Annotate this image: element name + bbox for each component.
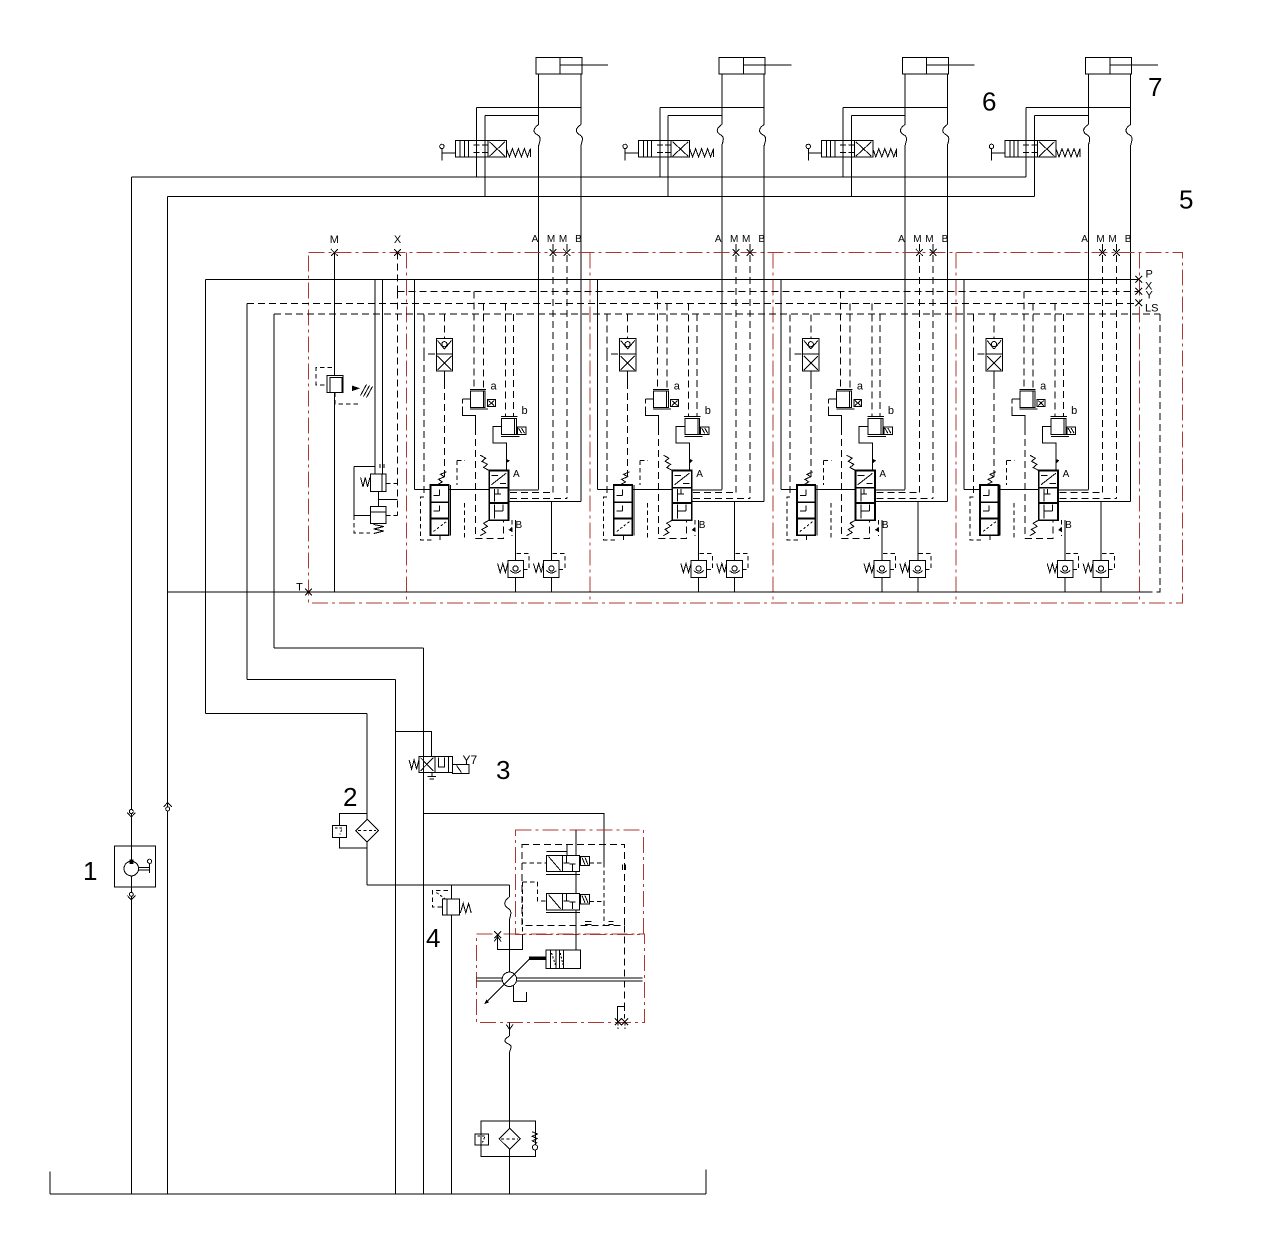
section 1 spool bottom cell lines [494,505,496,519]
section 4 spool spring bottom [1030,520,1039,535]
section 2 pilot valve b top ticks [684,415,701,417]
svg-text:B: B [699,520,706,531]
section 3 port relief B pilot dash [919,554,932,570]
valve block section border 4 [955,253,957,604]
hand pump 1 lever [139,866,150,868]
svg-text:5: 5 [1179,185,1193,215]
solenoid valve A underline [546,873,580,875]
wire valve2 to pipe A [668,115,722,117]
section 2 pilot valve a riser right [666,303,668,389]
section 1 gauge line Mb [566,244,568,499]
section 4 gauge line Mb [1115,244,1117,499]
section 4 pilot valve b top ticks [1051,415,1068,417]
solenoid valve 3 branch [396,732,432,757]
section 4 port relief A feed [1064,520,1066,560]
svg-text:A: A [532,234,539,245]
section 2 compensator drain tail [622,535,624,540]
section 4 pilot valve a riser left [1023,291,1025,389]
section 3 pilot valve b riser left [871,303,873,416]
section 3 compensator pilot dash line [789,354,791,497]
section 3 pilot a output dash down [841,428,843,538]
svg-text:M: M [559,234,567,245]
pipe A3 upper [904,74,906,125]
section 4 compensator spring [988,472,996,485]
filter feed drop [366,714,368,820]
section 1 port relief B spring [534,564,544,573]
section 1 pilot valve a solenoid [488,400,496,407]
hand valve HV2 lever [623,144,627,148]
section 1 port relief A drain [515,578,517,592]
section 1 check valve poppet ball [442,342,447,347]
pipe A2 break [717,125,723,146]
section 3 port relief B anticav [915,566,920,571]
section 1 port relief A pilot dash [516,554,529,570]
section 2 pilot valve b underline [684,435,702,437]
section 4 pilot valve b output elbow [1042,427,1056,471]
unloader valve spring W [361,478,370,487]
svg-text:1: 1 [83,856,97,886]
section 4 port relief B feed [1100,502,1102,561]
section 1 pilot valve b underline [501,435,519,437]
bus line T-pilot (y197) [168,196,1035,198]
suction staple [498,935,523,950]
solenoid valve A right cell [566,856,568,863]
elbow P to filter [206,713,368,715]
section 1 spool spring bottom [480,520,489,535]
hand valve HV2 riser left [659,107,661,177]
section 1 pilot valve a left port [462,398,470,400]
hand pump 1 port dot [130,860,133,863]
solenoid valve 3 U cell [439,758,445,768]
solenoid valve 3 tank [431,772,433,776]
unloader valve left link [354,466,375,468]
section 4 compensator mid cell [983,510,989,512]
relief valve DBV spring hatches [361,385,367,396]
section 2 port relief A spring [681,564,691,573]
section 3 pilot valve a riser left [840,291,842,389]
section 2 pilot valve b solenoid [701,427,709,434]
unloader valve lower box [370,507,386,524]
section 1 port relief B pilot dash [552,554,565,570]
section 3 gauge line Mb [932,244,934,499]
pump shaft lines [477,977,643,979]
cylinder CYL2 rod [743,64,765,66]
svg-text:b: b [522,405,528,417]
section 4 pilot valve b riser left [1054,303,1056,416]
pipe B1 lower [580,146,582,502]
hand valve HV2 right cell crossed [673,142,688,156]
hand valve HV4 riser right [1034,116,1036,197]
section 1 port relief A feed [515,520,517,560]
pipe A1 lower [538,146,540,490]
section 3 check valve lower cross [804,356,818,370]
cylinder CYL2 piston [742,57,744,74]
return filter bypass box [475,1134,488,1145]
section 2 check valve poppet seat [621,341,628,350]
hand valve HV2 riser right [667,116,669,197]
section 4 gauge link Ma [1060,491,1103,493]
section 1 compensator bottom cell dash arrow [434,522,447,532]
section 3 spool top cell arrows [858,473,873,485]
section 2 gauge link Mb [693,498,750,500]
section 2 compensator body [614,485,632,535]
section 3 pilot valve b output elbow [859,427,873,471]
svg-text:LS: LS [1145,303,1158,315]
section 4 port relief A body [1057,560,1073,577]
section 1 port relief A anticav [513,566,518,571]
section 2 port relief B feed [734,502,736,561]
svg-text:M: M [330,234,339,246]
pipe A4 lower [1087,146,1089,490]
section 1 port relief B anticav [549,566,554,571]
unloader drain dash [354,516,370,534]
section 3 compensator mid cell [800,510,806,512]
section 4 compensator pilot dash bracket [970,497,982,540]
cylinder CYL1 piston [559,57,561,74]
section 3 spool pilot bottom riser [877,520,879,536]
section 2 compensator dash feed [640,459,648,461]
svg-text:A: A [1081,234,1088,245]
section 2 spool spring bottom [663,520,672,535]
section 1 compensator pilot dash line [423,354,425,497]
relief 4 spring [460,903,471,912]
section 3 main spool body [856,471,875,521]
svg-text:X: X [394,234,402,246]
section 2 gauge line Mb [749,244,751,499]
coupling on tank line [164,802,172,807]
section 3 pilot valve a underline [836,408,854,410]
port Y marker [1135,300,1142,307]
enclosure right dash drop [623,925,625,1006]
section 1 compensator spring [438,472,446,485]
pipe A3 break [900,125,906,146]
hand valve HV3 body [822,141,873,158]
section 1 check valve feed dash [443,314,445,338]
section 3 spool spring bottom [847,520,856,535]
section 4 check valve feed dash [993,314,995,338]
pump case drain tank [514,986,527,1002]
pipe A4 break [1084,125,1090,146]
hand valve HV1 riser left [476,107,478,177]
section 2 compensator pilot dash line [606,354,608,497]
svg-text:M: M [547,234,555,245]
main pressure line left riser [130,177,132,1194]
section 1 pilot valve a output elbow [462,410,475,428]
svg-text:b: b [705,405,711,417]
section 4 port relief B spring [1083,564,1093,573]
section 1 port relief B drain [550,578,552,592]
return filter enclosure [481,1121,536,1156]
section 3 pilot valve b top ticks [867,415,884,417]
svg-text:a: a [1040,381,1047,393]
section 4 compensator pilot dash line [972,354,974,497]
svg-text:A: A [696,469,703,480]
section 3 compensator pilot dash bracket [787,497,799,540]
section 1 compensator dash feed [457,459,465,461]
P supply riser [205,279,207,713]
relief 4 feed [450,885,452,899]
pipe B3 break [943,125,949,146]
hand pump 1 box [114,846,155,887]
svg-text:b: b [1071,405,1077,417]
relief 4 body [443,899,460,915]
section 3 pilot valve b solenoid [884,427,892,434]
section 1 pilot valve a riser left [473,291,475,389]
pump regulator box [546,950,580,969]
hand valve HV4 spring [1056,149,1080,157]
section 2 check valve feed dash [627,314,629,338]
section 3 pilot valve b underline [868,435,886,437]
section 4 spool bottom cell lines [1043,505,1045,519]
pilot drain dash [521,882,523,935]
section 4 pilot valve b underline [1051,435,1069,437]
section 3 pilot valve a riser right [849,303,851,389]
section 1 port relief B feed [550,502,552,561]
solenoid valve B feed riser [575,872,577,894]
filter 2 bypass valve box [333,825,347,837]
section 4 pilot valve a solenoid [1037,400,1045,407]
svg-text:b: b [888,405,894,417]
section 1 compensator body [431,485,449,535]
hand valve HV3 right cell crossed [856,142,871,156]
solenoid valve B right cell [566,894,568,901]
section 4 work line B horizontal [1058,501,1131,503]
pipe B3 upper [946,74,948,125]
filter outlet bus [367,884,509,886]
orifice marks 2 [609,921,614,923]
hand valve HV4 lever [989,144,993,148]
port T marker [305,589,312,596]
section 2 compensator top cell [617,495,623,497]
hand valve HV1 body [455,141,506,158]
section 1 main spool body [489,471,508,521]
hand valve HV1 lever [440,144,444,148]
unloader valve lower spring [374,525,384,534]
section 3 pilot valve b riser right [879,314,881,416]
port P marker [1135,276,1142,283]
tank bus T inside block [167,591,1148,593]
section 2 pilot valve a solenoid [671,400,679,407]
section 3 feed vertical [780,279,782,489]
elbow Y line [247,679,396,681]
section 1 check valve CV body [436,338,452,371]
svg-text:A: A [513,469,520,480]
hand valve HV3 riser right [850,116,852,197]
svg-text:a: a [674,381,681,393]
svg-text:M: M [1108,234,1116,245]
pipe B3 lower [946,146,948,502]
section 3 port relief B body [910,560,926,577]
hand valve HV1 riser right [484,116,486,197]
section 2 pilot valve b body [685,418,700,434]
wire valve3 to pipe A [851,115,905,117]
svg-text:7: 7 [1148,72,1162,102]
section 4 pilot valve a underline [1020,408,1038,410]
cylinder CYL1 rod [560,64,582,66]
X port drop line [397,253,399,292]
hand valve HV4 right cell crossed [1039,142,1054,156]
pump return drop [395,680,397,1194]
section 4 pilot valve a body [1020,391,1035,407]
coupling below pump [129,892,133,896]
svg-text:2: 2 [343,782,357,812]
section 2 port relief B anticav [732,566,737,571]
return filter outlet [509,1149,511,1194]
return filter relief spring [532,1132,537,1144]
cylinder CYL3 piston [926,57,928,74]
section 4 pilot valve b solenoid [1067,427,1075,434]
section 4 spool mid cell lines [1043,489,1045,502]
section 4 port relief B pilot dash [1102,554,1115,570]
relief 4 drain [450,915,452,1194]
section 3 port relief B drain [917,578,919,592]
hand valve HV4 riser left [1025,107,1027,177]
section 2 check valve lower cross [621,356,635,370]
solenoid valve A body [547,855,580,871]
solenoid valve A pilot dash right [589,862,604,864]
section 2 pilot valve a left port [646,398,654,400]
section 4 compensator right dash [1013,503,1015,539]
pilot valves dash enclosure [522,844,624,925]
tank bus bottom [50,1193,706,1195]
pilot valve feed drop [422,648,424,1194]
hand valve HV3 left cell parallel lines [826,141,828,158]
solenoid valve B body [547,893,580,909]
section 2 pilot valve a body [654,391,669,407]
pump suction with break [508,885,510,897]
section 1 pilot valve b top ticks [501,415,518,417]
section 4 port relief A anticav [1063,566,1068,571]
wire valve4 to pipe A [1035,115,1089,117]
section 1 compensator side line [450,485,452,535]
hand valve HV1 left cell parallel lines [459,141,461,158]
section 4 gauge link Mb [1060,498,1117,500]
solenoid valve A pilot dash left [522,862,547,864]
wire valve4 to pipe B [1026,106,1130,108]
solenoid valve A feed riser [575,830,577,856]
valve block section border 1 [406,253,408,604]
section 2 main spool body [672,471,691,521]
section 4 gauge line Ma [1102,244,1104,492]
orifice marks right edge [621,865,623,871]
main tank line left riser [167,197,169,1195]
section 1 spool pilot arrow top [506,459,510,464]
section 1 spool mid cell lines [494,489,496,502]
hand valve HV2 centre cell blocked ports [659,141,661,146]
section 2 spool mid cell lines [677,489,679,502]
section 2 port relief B body [727,560,743,577]
wire valve1 to pipe B [477,106,581,108]
section 1 pilot valve b riser right [513,314,515,416]
svg-text:a: a [857,381,864,393]
valve block section border 2 [589,253,591,604]
section 2 pilot a output dash down [658,428,660,538]
pipe A1 break [534,125,540,146]
unloader pilot dashes to X [386,483,398,485]
section 1 compensator pilot dash bracket [421,497,433,540]
pump control rod [530,957,547,960]
pump outlet line [509,1023,511,1037]
section 4 spool pilot arrow top [1056,459,1060,464]
section 3 compensator drain tail [806,535,808,540]
svg-text:B: B [942,234,949,245]
LS line right drop [1159,314,1161,588]
svg-text:M: M [925,234,933,245]
Y pilot riser [246,303,248,679]
svg-text:A: A [898,234,905,245]
pilot feed elbow [423,814,604,864]
section 4 compensator dash feed [1007,459,1015,461]
svg-text:M: M [730,234,738,245]
unloader valve interconnect [377,491,379,506]
solenoid valve 3 body [419,756,453,772]
svg-text:B: B [758,234,765,245]
section 3 pilot a output dash corner [842,520,870,538]
section 2 check valve CV body [620,338,636,371]
section 2 port relief B drain [734,578,736,592]
section 3 pilot valve b body [868,418,883,434]
section 3 port relief A feed [881,520,883,560]
section 4 spool pilot bottom riser [1061,520,1063,536]
svg-text:M: M [742,234,750,245]
section 2 spool bottom cell lines [677,505,679,519]
section 2 work line A horizontal [598,489,614,491]
section 3 pilot valve a solenoid [854,400,862,407]
section 1 port relief A body [508,560,524,577]
cylinder CYL4 body [1086,57,1132,74]
filter 2 bypass enclosure [340,813,368,825]
section 2 spool spring top [663,455,672,470]
section 1 check valve outlet [443,371,445,382]
section 3 compensator bottom cell dash arrow [800,522,813,532]
section 3 spool bottom cell lines [860,505,862,519]
solenoid valve A solenoid [581,856,590,865]
section 2 pilot valve a top ticks [653,388,669,390]
section 3 check valve CV body [803,338,819,371]
section 2 port relief A drain [698,578,700,592]
section 2 pilot valve a underline [653,408,671,410]
section 4 compensator drain tail [989,535,991,540]
cylinder CYL4 rod [1110,64,1132,66]
relief 4 pilot dash bracket [432,890,448,907]
solenoid valve 3 crossed cell [421,758,434,771]
section 1 pilot a output dash corner [475,520,503,538]
section 1 pilot valve b body [502,418,517,434]
inlet P riser 1 [374,279,376,474]
section 2 pilot valve a riser left [656,291,658,389]
section 4 work line A horizontal [964,489,980,491]
pipe A1 upper [538,74,540,125]
section 1 pilot valve a body [470,391,485,407]
hand valve HV2 left cell parallel lines [642,141,644,158]
section 2 compensator bottom cell dash arrow [617,522,630,532]
svg-text:A: A [879,469,886,480]
section 1 compensator mid cell [434,510,440,512]
filter 2 outlet [366,842,368,885]
solenoid valve 3 solenoid [453,765,469,774]
section 2 spool pilot arrow top [690,459,694,464]
section 2 pilot valve b riser left [688,303,690,416]
section 1 compensator right dash [463,503,465,539]
port M marker [331,249,338,256]
wire valve2 to pipe B [660,106,764,108]
pilot block red frame [516,830,644,935]
section 2 compensator right dash [647,503,649,539]
section 3 compensator right dash [830,503,832,539]
LS pilot riser [273,314,275,648]
section 3 compensator spring [804,472,812,485]
section 2 port relief A body [691,560,707,577]
